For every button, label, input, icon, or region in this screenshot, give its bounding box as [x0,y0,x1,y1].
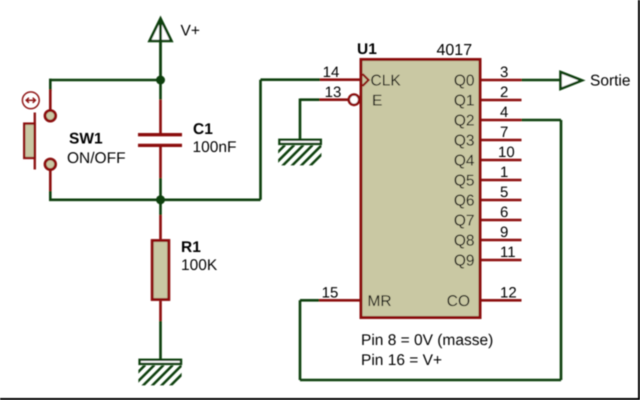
pin 9 Q8 stub [481,239,522,242]
SW1 actuator direction circle [22,92,39,109]
SW1 terminal bottom [45,159,56,170]
svg-text:11: 11 [500,244,516,261]
pin 13 E stub (red) [320,98,349,101]
CLK clock chevron [363,74,369,86]
svg-text:2: 2 [500,84,508,101]
pin names Q0..Q9, CO [447,73,475,311]
SW1 actuator arrow [26,98,35,103]
svg-text:6: 6 [500,204,508,221]
svg-text:Q9: Q9 [454,253,475,270]
svg-text:CLK: CLK [371,73,402,90]
wire E drop to ground [299,99,302,140]
junction dot at V+ rail [156,76,165,85]
svg-text:9: 9 [500,224,508,241]
pin 6 Q7 stub [481,219,522,222]
svg-text:4017: 4017 [437,42,473,59]
svg-text:Q4: Q4 [454,153,475,170]
SW1 pin top (red) [49,90,52,112]
svg-text:ON/OFF: ON/OFF [67,150,126,167]
svg-text:14: 14 [323,64,340,81]
svg-text:13: 13 [325,84,342,101]
pin 12 CO stub [481,299,522,302]
wire bottom horizontal of feedback loop [300,379,561,382]
wire C1 bottom to junction (green part) [159,178,162,200]
svg-text:Q7: Q7 [454,213,475,230]
wire Q2 to right vertical [522,119,562,122]
capacitor C1 [138,100,182,178]
IC U1 4017 body [361,60,480,318]
wire SW1 bottom to rail (green part) [49,191,52,201]
svg-text:E: E [372,93,382,110]
pin 3 Q0 stub [481,79,522,82]
svg-text:5: 5 [500,184,508,201]
pin 10 Q4 stub [481,159,522,162]
svg-text:SW1: SW1 [69,131,103,148]
svg-text:Pin 8 = 0V (masse): Pin 8 = 0V (masse) [361,332,493,349]
C1 pin bottom (red) [159,147,162,178]
wire R1 bottom to ground (green part) [159,321,162,360]
R1 pin bottom (red) [159,301,162,321]
pin 1 Q5 stub [481,179,522,182]
svg-text:Q2: Q2 [454,113,475,130]
svg-text:Q3: Q3 [454,133,475,150]
svg-text:15: 15 [322,284,339,301]
pin 15 MR stub (red) [319,299,360,302]
border right [638,0,640,400]
svg-text:C1: C1 [193,121,213,138]
wire junction down to R1 (green part) [159,200,162,215]
wire E horizontal (green part) [300,98,320,101]
svg-text:Q0: Q0 [454,73,475,90]
wire top rail from SW1 to V+ junction [49,79,160,82]
C1 pin top (red) [159,100,162,133]
svg-text:CO: CO [447,293,470,310]
svg-text:12: 12 [500,284,517,301]
svg-text:Q5: Q5 [454,173,475,190]
svg-text:Pin 16 = V+: Pin 16 = V+ [361,352,442,369]
wire Q0 to output arrow [522,79,561,82]
junction dot at C1/R1 node [156,195,165,204]
svg-text:1: 1 [500,164,508,181]
SW1 pin bottom (red) [49,169,52,191]
svg-text:Q8: Q8 [454,233,475,250]
pin 14 CLK stub (red) [320,78,360,81]
svg-text:Q1: Q1 [454,93,475,110]
SW1 lever [34,113,36,170]
border bottom [0,398,640,400]
wire to CLK horizontal (green part) [261,78,321,81]
wire V+ junction down to C1 (green part) [159,80,162,100]
wire SW1 top drop (green part) [49,79,52,91]
wire rail up to CLK: vertical at x=260 [259,80,262,200]
svg-text:100K: 100K [181,257,218,274]
SW1 terminal top [45,111,56,122]
svg-text:100nF: 100nF [193,139,237,156]
pin 11 Q9 stub [481,259,522,262]
ground symbol near E pin [262,140,331,168]
right pin numbers [498,64,517,301]
svg-text:10: 10 [498,144,515,161]
pin 5 Q6 stub [481,199,522,202]
svg-text:3: 3 [500,64,508,81]
pin 2 Q1 stub [481,99,522,102]
svg-text:4: 4 [500,104,508,121]
R1 pin top (red) [159,215,162,239]
switch SW1 [22,90,55,192]
svg-text:7: 7 [500,124,508,141]
wire right vertical down [560,120,563,380]
svg-text:MR: MR [368,293,392,310]
wire bottom rail SW1 to x=260 [49,199,261,202]
E inversion bubble [349,95,359,105]
svg-text:Sortie: Sortie [590,73,631,90]
C1 plate top [138,133,182,136]
resistor R1 [152,215,169,321]
power symbol V+ [150,19,172,81]
ground symbol under R1 [122,360,191,388]
pin 7 Q3 stub [481,139,522,142]
wire MR horizontal (green part) [300,299,319,302]
output arrow Sortie [561,72,583,89]
svg-text:R1: R1 [181,239,201,256]
SW1 body [24,124,35,158]
pin 4 Q2 stub [481,119,522,122]
svg-text:U1: U1 [357,41,377,58]
R1 body [152,241,169,300]
svg-text:V+: V+ [181,22,200,39]
C1 plate bottom [138,144,182,147]
wire left vertical of feedback loop [299,300,302,380]
svg-text:Q6: Q6 [454,193,475,210]
right side pin stubs Q0..Q9 (red) [481,80,522,300]
